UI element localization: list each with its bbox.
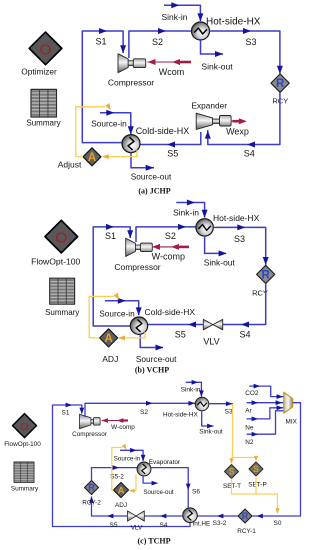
heat exchanger Hot-side-HX (a) [192,17,261,41]
stream Source-in (a) [91,110,134,135]
wire S2 (a) [129,28,192,58]
svg-text:S3: S3 [234,234,245,244]
stream Source-in (c) [114,448,146,463]
optimizer Optimizer [21,32,62,76]
svg-text:A: A [118,485,125,496]
svg-text:Int.HE: Int.HE [193,521,211,528]
svg-text:S1: S1 [95,37,106,47]
svg-text:R: R [88,483,95,493]
svg-text:A: A [104,333,112,345]
heat exchanger Cold-side-HX (b) [130,307,195,334]
svg-text:Cold-side-HX: Cold-side-HX [136,126,190,136]
wire S1 (c) [53,403,191,527]
wire S5 (b) [147,322,203,340]
svg-text:S5: S5 [175,330,186,340]
set SET-P [248,462,266,489]
energy stream W-comp (b) [152,244,189,262]
adjust wire from Cold-side-HX (b) [118,332,145,340]
svg-text:Wcom: Wcom [159,67,185,77]
svg-text:Cold-side-HX: Cold-side-HX [145,307,196,317]
heat exchanger Evaporator [137,459,181,476]
svg-text:S6: S6 [192,489,200,496]
svg-text:Sink-out: Sink-out [204,258,236,268]
expander Expander [192,101,232,130]
stream Sink-in (a) [162,2,204,22]
heat exchanger Int.HE [183,508,211,528]
svg-text:CO2: CO2 [245,390,259,397]
svg-text:Source-out: Source-out [143,489,174,496]
svg-text:Expander: Expander [192,101,228,111]
svg-text:S2: S2 [165,231,176,241]
svg-text:ADJ: ADJ [102,354,118,364]
svg-text:Sink-in: Sink-in [173,208,199,218]
stream CO2 [245,384,283,399]
svg-text:Summary: Summary [11,486,39,493]
wire S1 (a) [82,28,126,143]
svg-text:Summary: Summary [45,308,79,317]
svg-text:W-comp: W-comp [152,252,185,262]
set SET-T [223,465,241,491]
compressor Compressor (c) [72,414,108,438]
spreadsheet Summary (a) [26,89,60,127]
svg-text:Hot-side-HX: Hot-side-HX [163,411,199,418]
svg-text:Source-in: Source-in [99,308,135,318]
optimizer FlowOpt-100 (c) [4,414,41,448]
svg-text:S: S [228,467,234,477]
energy stream Wexp [226,118,249,136]
stream Sink-in (b) [173,200,208,218]
svg-text:S3-2: S3-2 [213,520,227,527]
stream Source-out (a) [131,153,172,182]
recycle RCY (b) [252,265,275,297]
svg-text:(b) VCHP: (b) VCHP [135,366,169,375]
svg-text:S1: S1 [62,410,70,417]
svg-text:N2: N2 [245,439,254,446]
wire S0 [253,403,301,527]
wire S5 (a) [140,132,201,159]
svg-text:FlowOpt-100: FlowOpt-100 [31,256,80,266]
svg-text:VLV: VLV [131,525,143,532]
wire S1 (b) [93,224,133,326]
svg-text:S4: S4 [160,522,168,529]
svg-text:VLV: VLV [203,337,219,347]
svg-text:O: O [20,421,28,433]
wire S6 [151,468,200,508]
set output wires to S0 [232,476,280,514]
svg-text:S3: S3 [225,409,233,416]
wire S3 (a) [210,28,283,74]
adjust ADJ (c) [113,482,128,509]
svg-text:FlowOpt-100: FlowOpt-100 [4,441,41,448]
energy stream W-comp (c) [102,418,136,431]
wire S4 (c) [144,514,182,529]
svg-text:RCY-1: RCY-1 [237,528,256,535]
svg-text:Source-in: Source-in [114,456,141,463]
svg-text:Compressor: Compressor [72,431,108,438]
compressor Compressor (b) [114,238,160,272]
svg-text:Source-out: Source-out [136,354,177,364]
wire S4 (b) [223,284,266,340]
heat exchanger Cold-side-HX (a) [122,126,189,153]
svg-text:Source-in: Source-in [91,118,127,128]
svg-text:Sink-in: Sink-in [162,12,188,22]
svg-text:S4: S4 [239,330,250,340]
stream Sink-out (c) [199,411,223,436]
valve VLV (c) [128,511,145,532]
set wire S3 to SET-T and SET-P [229,404,258,464]
svg-text:SET-P: SET-P [248,482,266,489]
svg-text:R: R [262,270,271,282]
svg-text:Sink-out: Sink-out [201,61,233,71]
stream Source-out (c) [143,476,174,496]
adjust wire to Source-in (a) [76,103,113,157]
wire S3-2 [197,514,238,527]
svg-text:S4: S4 [244,149,255,159]
svg-text:S0: S0 [274,520,282,527]
wire S3 (b) [213,224,268,265]
adjust wire to Source-in (b) [89,293,121,338]
compressor Compressor (a) [108,54,154,88]
valve VLV (b) [203,319,222,346]
svg-text:Sink-in: Sink-in [181,387,201,394]
svg-text:Summary: Summary [26,119,60,128]
adjust wire from Cold-side-HX (a) [102,150,137,159]
svg-text:R: R [242,511,249,521]
svg-text:(a) JCHP: (a) JCHP [138,187,170,196]
heat exchanger Hot-side-HX (c) [163,397,209,418]
svg-text:S3: S3 [245,37,256,47]
svg-text:W-comp: W-comp [111,424,135,431]
spreadsheet Summary (b) [45,278,79,317]
adjust ADJ (b) [100,329,119,364]
stream Ar [245,400,283,414]
svg-text:O: O [55,230,67,247]
svg-text:Adjust: Adjust [58,160,82,170]
wire S2 (b) [136,224,196,242]
svg-text:Wexp: Wexp [226,126,249,136]
spreadsheet Summary (c) [11,462,39,493]
svg-text:A: A [88,152,96,164]
wire S3 (c) [209,401,233,415]
svg-text:S5: S5 [167,149,178,159]
stream Ne [245,405,283,431]
svg-text:ADJ: ADJ [115,502,127,509]
stream N2 [245,411,283,446]
svg-text:MIX: MIX [286,419,298,426]
svg-text:Compressor: Compressor [114,262,160,272]
adjust wire to Source-in (c) [112,444,128,490]
stream Source-out (b) [136,334,177,364]
svg-text:(c) TCHP: (c) TCHP [138,537,171,546]
recycle RCY-2 [82,481,101,507]
svg-text:Hot-side-HX: Hot-side-HX [213,213,260,223]
optimizer FlowOpt-100 (b) [31,220,80,266]
svg-text:R: R [276,78,285,90]
svg-text:S1: S1 [105,231,116,241]
svg-text:S: S [253,464,259,474]
stream Sink-out (b) [204,236,236,267]
energy stream Wcom [148,59,192,77]
svg-text:S2: S2 [140,409,148,416]
heat exchanger Hot-side-HX (b) [196,213,260,236]
recycle RCY (a) [271,74,289,105]
svg-text:Compressor: Compressor [108,78,154,88]
stream Sink-in (c) [181,380,204,397]
svg-text:Source-out: Source-out [131,171,172,181]
svg-text:RCY-2: RCY-2 [82,500,101,507]
svg-text:Optimizer: Optimizer [21,67,57,77]
wire S2 (c) [85,401,195,417]
svg-text:S5: S5 [110,522,118,529]
svg-text:Hot-side-HX: Hot-side-HX [206,17,261,28]
wire S5-2 [92,465,138,480]
svg-text:Ar: Ar [245,408,252,415]
stream Sink-out (a) [201,40,234,71]
svg-text:Sink-out: Sink-out [199,428,223,435]
svg-text:Ne: Ne [245,424,254,431]
stream Source-in (b) [99,298,141,319]
adjust wire from Evaporator (c) [129,475,136,493]
recycle RCY-1 [237,509,256,535]
mixer MIX [284,392,298,425]
svg-text:S2: S2 [152,37,163,47]
svg-text:O: O [40,42,52,59]
wire S5 (c) [89,497,127,530]
wire S4 (a) [205,92,280,158]
adjust Adjust [58,148,101,170]
svg-text:Evaporator: Evaporator [149,459,181,466]
